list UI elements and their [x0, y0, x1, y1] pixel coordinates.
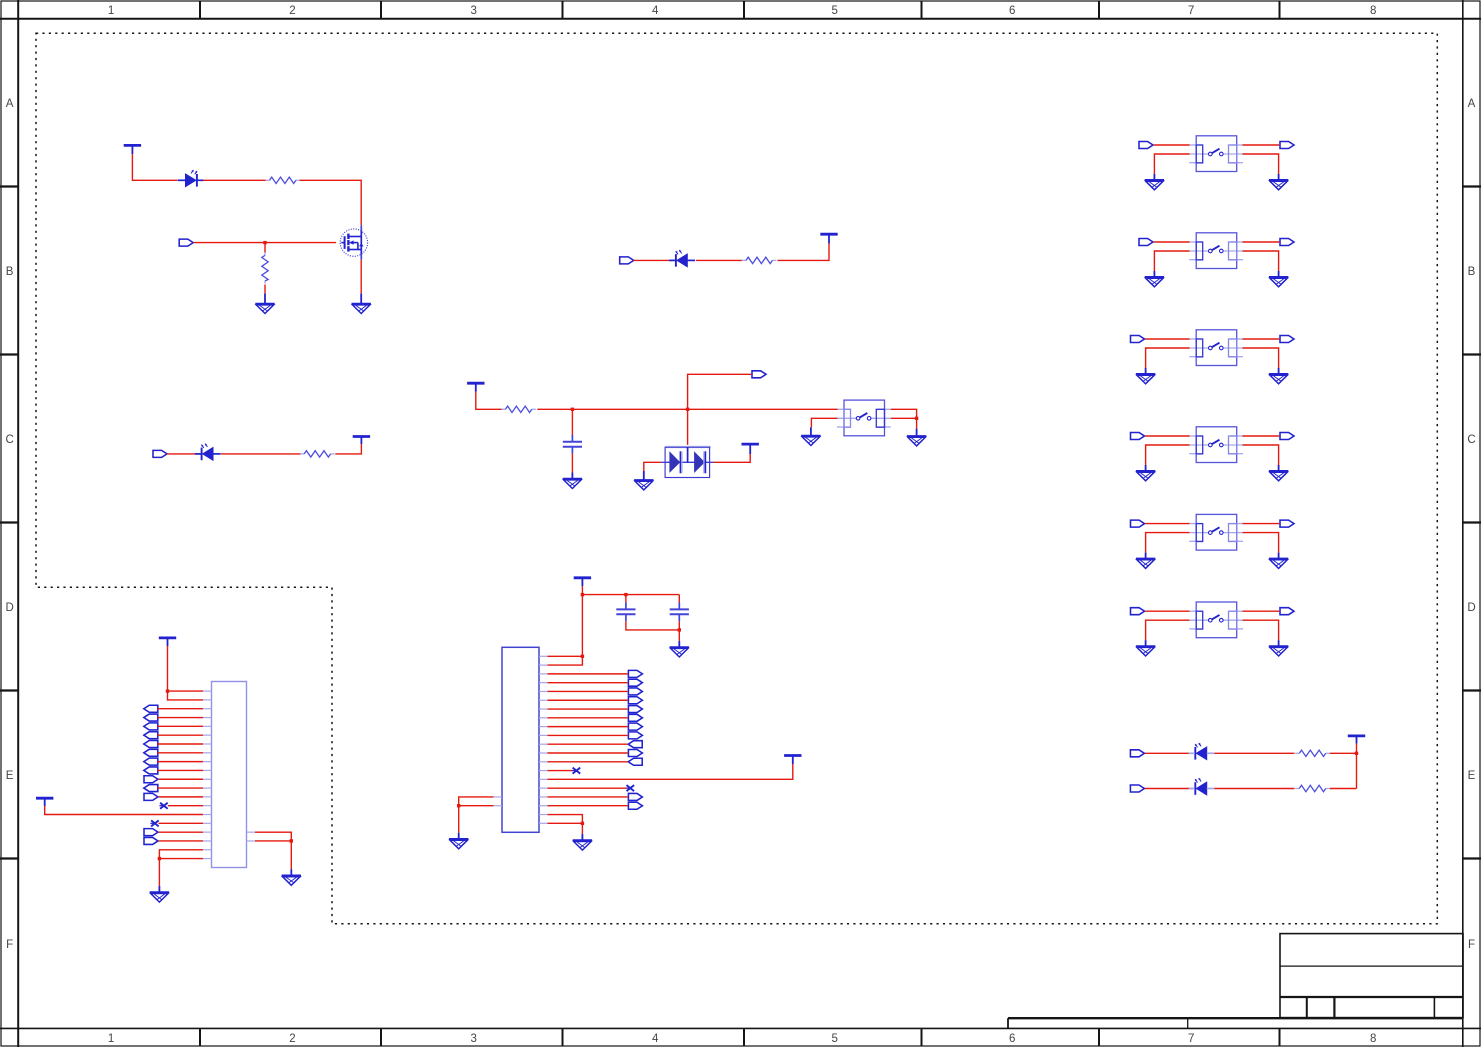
svg-text:8: 8 [1370, 5, 1376, 17]
wire J1 pin11 [159, 778, 203, 780]
wire J2 pin4 [548, 682, 628, 684]
wire R7 to VCC rail [1330, 788, 1357, 790]
svg-text:6: 6 [1009, 1033, 1015, 1045]
wire J2 pin6 [548, 699, 628, 701]
wire SW7 lower-right to ground [1243, 620, 1279, 640]
ground below J1 [150, 886, 169, 902]
wire SW3 lower-left to ground [1154, 251, 1189, 271]
wire J1 pin9 [157, 761, 203, 763]
connector J2 pin stubs [494, 656, 548, 823]
wire VCC8 to J1 pin15 [45, 806, 203, 814]
resistor R1 [265, 177, 300, 183]
wire J2 left pin18 [459, 805, 494, 807]
svg-text:C: C [5, 434, 13, 446]
ground right of J1 [282, 869, 301, 885]
wire R3 to VCC2 [778, 243, 830, 260]
input port NET2 [620, 257, 634, 264]
resistor R4 [300, 451, 335, 457]
junction J2 pin20 [581, 822, 584, 825]
svg-text:8: 8 [1370, 1033, 1376, 1045]
wire SW4 lower-left to ground [1146, 348, 1190, 368]
wire VCC1 to D1 anode [132, 154, 177, 180]
wire J2 pin11 [548, 743, 628, 745]
wire J1 pin13 [159, 796, 203, 798]
wire port to SW7 [1145, 610, 1190, 612]
input port NET3 [153, 450, 167, 457]
port J1 pin8 [144, 749, 158, 756]
wire SW6 to output port [1243, 523, 1280, 525]
LED D1 [178, 170, 204, 187]
ground left of SW2 [1145, 174, 1164, 190]
wire SW5 to output port [1243, 435, 1280, 437]
wire J2 pin18 [548, 805, 628, 807]
switch SW2 [1189, 136, 1243, 172]
wire node to D4 center [687, 409, 689, 445]
wire SW1 right lower [891, 417, 917, 419]
svg-text:F: F [1468, 939, 1475, 951]
power flag VCC7 [159, 638, 176, 646]
wire port to SW3 [1154, 241, 1190, 243]
svg-text:4: 4 [652, 1033, 659, 1045]
port J1 pin11 [144, 776, 158, 783]
wire J1 pin17 [159, 831, 203, 833]
wire J1 pin8 [157, 752, 203, 754]
wire J1 right pin A [255, 832, 291, 841]
input port SW7A [1131, 608, 1145, 615]
wire D3 to R4 [221, 453, 301, 455]
wire port to SW2 [1154, 144, 1190, 146]
wire C1 to ground [571, 454, 573, 473]
wire D5 to R6 [1214, 752, 1294, 754]
wire J1 pin10 [157, 769, 203, 771]
wire VCC6 rail down [1356, 744, 1358, 789]
wire NET1 to Q1 gate [194, 242, 337, 244]
power flag VCC2 [820, 234, 837, 243]
svg-text:B: B [6, 266, 14, 278]
wire caps to ground [678, 630, 680, 641]
junction J2 left [457, 804, 460, 807]
port J2 pin6 [628, 697, 642, 704]
ground right of SW1 [907, 429, 926, 446]
wire R1 to Q1 drain [300, 180, 362, 225]
wire J2 left pin17 [459, 797, 494, 806]
ground right of SW5 [1269, 465, 1288, 481]
dual diode D4 [661, 447, 714, 478]
port J2 pin10 [628, 732, 642, 739]
switch SW6 [1189, 514, 1243, 550]
wire to C3 [678, 595, 680, 603]
wire VCC4 to R5 [476, 392, 503, 410]
input port SW2A [1139, 142, 1153, 149]
port J2 pin5 [628, 688, 642, 695]
power flag VCC10 [784, 756, 801, 765]
LED D5 [1189, 743, 1215, 760]
port J1 pin18 [144, 837, 158, 844]
wire SW5 lower-left to ground [1146, 445, 1190, 465]
wire J2 pin19 [548, 815, 583, 824]
junction J2 pin1 [581, 655, 584, 658]
input port NET1 [179, 239, 193, 246]
port J1 pin5 [144, 723, 158, 730]
port J1 pin7 [144, 740, 158, 747]
capacitor C1 [563, 435, 582, 454]
switch SW5 [1189, 427, 1243, 463]
wire J1 pin4 [157, 717, 203, 719]
svg-text:7: 7 [1188, 1033, 1194, 1045]
ground right of SW3 [1269, 271, 1288, 287]
svg-text:1: 1 [108, 5, 114, 17]
power flag VCC5 [742, 444, 759, 454]
wire J2 pin10 [548, 734, 628, 736]
wire C3 bottom [678, 621, 680, 630]
wire SW3 lower-right to ground [1243, 251, 1279, 271]
svg-text:E: E [6, 770, 14, 782]
wire SW2 lower-right to ground [1243, 154, 1279, 174]
wire J1 pin20 [159, 858, 203, 860]
wire J1 pin20 to ground [158, 859, 160, 886]
wire J1 right pin B [255, 840, 291, 842]
wire VCC9 to J2 pin1 [548, 595, 583, 657]
wire D6 to R7 [1214, 788, 1294, 790]
port J1 pin17 [144, 829, 158, 836]
transistor Q1 (N-MOSFET) [340, 225, 367, 259]
ground left of D4 [634, 471, 653, 490]
wire J1 pin5 [157, 725, 203, 727]
junction caps ground node [678, 628, 681, 631]
wire SW4 lower-right to ground [1243, 348, 1279, 368]
wire SW3 to output port [1243, 241, 1280, 243]
wire node to port OUT1 [688, 374, 752, 409]
wire J2 pin8 [548, 717, 628, 719]
connector J2 body [502, 647, 539, 832]
connector J1 pin stubs [203, 691, 255, 858]
wire SW5 lower-right to ground [1243, 445, 1279, 465]
LED D3 [195, 444, 221, 461]
connector J1 body [212, 682, 247, 868]
svg-text:B: B [1468, 266, 1476, 278]
switch SW7 [1189, 602, 1243, 638]
ground left of SW6 [1136, 553, 1155, 569]
wire D1 cathode to R1 [203, 179, 266, 181]
wire J2 pin15 to VCC10 [548, 764, 793, 779]
wire J1 pin7 [157, 743, 203, 745]
port J1 pin4 [144, 714, 158, 721]
title block [1008, 934, 1463, 1029]
wire J2 pin9 [548, 726, 628, 728]
wire J1 pin19 [159, 850, 203, 859]
ground left of J2 [449, 833, 468, 849]
power flag VCC4 [467, 383, 484, 392]
port J2 pin4 [628, 679, 642, 686]
junction node C1 [571, 408, 574, 411]
wire J2 pin7 [548, 708, 628, 710]
svg-text:C: C [1467, 434, 1475, 446]
wire port to D5 [1145, 752, 1193, 754]
wire junction to R2 [264, 243, 266, 253]
input port SW4A [1131, 336, 1145, 343]
port J2 pin9 [628, 723, 642, 730]
svg-text:5: 5 [832, 5, 838, 17]
wire ground to D4 anode [644, 462, 661, 471]
port J2 pin7 [628, 706, 642, 713]
svg-text:F: F [6, 939, 13, 951]
wire SW1 right upper [891, 409, 917, 418]
wire J1 right to ground [290, 841, 292, 869]
output port OUT1 [752, 371, 766, 378]
switch SW4 [1189, 330, 1243, 366]
port J2 pin13 [628, 758, 642, 765]
svg-text:D: D [5, 602, 13, 614]
power flag VCC1 [124, 145, 141, 154]
wire J2 pin16 [548, 787, 627, 789]
ground left of SW7 [1136, 640, 1155, 656]
no-connect J1 pin14 [159, 803, 167, 809]
wire J2 pin20 [548, 822, 583, 824]
ground left of SW1 [801, 427, 820, 445]
port J2 pin18 [628, 802, 642, 809]
wire cap rail top [582, 594, 679, 596]
ground below C1 [563, 473, 582, 489]
switch SW3 [1189, 233, 1243, 269]
wire port to SW6 [1145, 523, 1190, 525]
wire R2 to ground [264, 285, 266, 294]
wire VCC7 to J1 pin1 [168, 646, 204, 691]
wire J1 pin14 [168, 805, 203, 807]
junction node gate/R2 [263, 241, 266, 244]
input port SW5A [1131, 433, 1145, 440]
ground below J2 [573, 834, 592, 850]
power flag VCC6 [1348, 736, 1365, 744]
port J2 pin8 [628, 714, 642, 721]
wire J1 pin16 [159, 822, 204, 824]
port J2 pin17 [628, 793, 642, 800]
switch SW1 [837, 400, 891, 436]
wire R6 to VCC rail [1330, 752, 1357, 754]
wire J1 pin6 [157, 734, 203, 736]
wire node to C1 [571, 409, 573, 436]
port J1 pin6 [144, 732, 158, 739]
wire J1 pin18 [159, 840, 203, 842]
port J1 pin10 [144, 767, 158, 774]
svg-text:3: 3 [471, 5, 477, 17]
junction VCC9 node [581, 593, 584, 596]
svg-text:7: 7 [1188, 5, 1194, 17]
wire port to SW5 [1145, 435, 1190, 437]
wire Q1 source to ground [360, 260, 362, 294]
wire SW6 lower-left to ground [1146, 533, 1190, 553]
junction J1 pin1 [166, 689, 169, 692]
power flag VCC8 [36, 798, 53, 806]
resistor R5 [501, 406, 536, 412]
wire SW2 lower-left to ground [1154, 154, 1189, 174]
svg-text:E: E [1468, 770, 1476, 782]
svg-text:D: D [1467, 602, 1475, 614]
svg-text:1: 1 [108, 1033, 114, 1045]
ground below Q1 [352, 294, 371, 314]
port J1 pin9 [144, 758, 158, 765]
svg-text:2: 2 [289, 5, 295, 17]
svg-text:2: 2 [289, 1033, 295, 1045]
wire R5 to SW1 net [537, 408, 838, 410]
ground right of SW7 [1269, 640, 1288, 656]
wire J1 pin3 [157, 708, 203, 710]
junction C2 top [624, 593, 627, 596]
wire VCC9 down [581, 586, 583, 595]
wire SW4 to output port [1243, 338, 1280, 340]
wire SW6 lower-right to ground [1243, 533, 1279, 553]
wire port to SW4 [1145, 338, 1190, 340]
capacitor C2 [616, 602, 635, 621]
junction right of SW1 [915, 417, 918, 420]
ground left of SW5 [1136, 465, 1155, 481]
resistor R6 [1295, 750, 1330, 756]
junction node OUT [686, 408, 689, 411]
junction J1 pin20 [158, 857, 161, 860]
wire to J1 pin2 [168, 691, 204, 700]
wire to C2 [625, 595, 627, 603]
wire SW7 to output port [1243, 610, 1280, 612]
wire NET2 to D2 [634, 259, 673, 261]
port J2 pin11 [628, 741, 642, 748]
wire D2 to R3 [696, 259, 742, 261]
LED D2 [669, 250, 695, 267]
ground right of SW6 [1269, 553, 1288, 569]
ground left of SW4 [1136, 368, 1155, 384]
wire to J2 pin2 [548, 656, 583, 665]
port J2 pin3 [628, 670, 642, 677]
output port SW6B [1280, 520, 1294, 527]
wire SW2 to output port [1243, 144, 1280, 146]
power flag VCC3 [353, 437, 370, 445]
output port SW7B [1280, 608, 1294, 615]
svg-text:A: A [1468, 98, 1476, 110]
wire J2 pin3 [548, 673, 628, 675]
ground right of SW2 [1269, 174, 1288, 190]
input port SW6A [1131, 520, 1145, 527]
output port SW4B [1280, 336, 1294, 343]
wire J2 pin13 [548, 761, 628, 763]
wire D4 cathode to VCC5 [714, 454, 751, 462]
wire J2 pin20 to ground [581, 823, 583, 834]
no-connect J1 pin16 [150, 820, 158, 826]
no-connect J2 pin16 [626, 785, 634, 791]
wire J1 pin12 [157, 787, 203, 789]
power flag VCC9 [574, 578, 591, 586]
port J1 pin13 [144, 793, 158, 800]
wire J2 pin12 [548, 752, 628, 754]
ground right of SW4 [1269, 368, 1288, 384]
wire J2 pin5 [548, 690, 628, 692]
svg-text:A: A [6, 98, 14, 110]
junction VCC6 rail [1355, 752, 1358, 755]
wire J2 pin17 [548, 796, 628, 798]
wire C2 bottom rail [626, 621, 679, 630]
ground below R2 [255, 294, 274, 314]
input port LEDNET2 [1130, 785, 1144, 792]
svg-text:3: 3 [471, 1033, 477, 1045]
no-connect J2 pin14 [572, 768, 580, 774]
wire port to D6 [1145, 788, 1193, 790]
resistor R2 [262, 253, 268, 284]
port J1 pin3 [144, 705, 158, 712]
wire R4 to VCC3 [335, 444, 361, 454]
wire to ground right of SW1 [916, 418, 918, 428]
input port SW3A [1139, 239, 1153, 246]
ground below caps [670, 641, 689, 657]
port J1 pin12 [144, 785, 158, 792]
capacitor C3 [670, 602, 689, 621]
wire NET3 to D3 [167, 453, 200, 455]
port J2 pin12 [628, 749, 642, 756]
ground left of SW3 [1145, 271, 1164, 287]
output port SW2B [1280, 142, 1294, 149]
input port LEDNET1 [1130, 750, 1144, 757]
wire SW7 lower-left to ground [1146, 620, 1190, 640]
svg-text:5: 5 [832, 1033, 838, 1045]
svg-text:6: 6 [1009, 5, 1015, 17]
resistor R3 [742, 257, 777, 263]
output port SW3B [1280, 239, 1294, 246]
resistor R7 [1295, 785, 1330, 791]
wire J2 pin14 [548, 770, 573, 772]
LED D6 [1189, 778, 1215, 795]
junction J1 right [290, 839, 293, 842]
output port SW5B [1280, 433, 1294, 440]
svg-text:4: 4 [652, 5, 659, 17]
wire J2 left to ground [458, 806, 460, 833]
wire SW1 left lower to ground [811, 418, 837, 427]
